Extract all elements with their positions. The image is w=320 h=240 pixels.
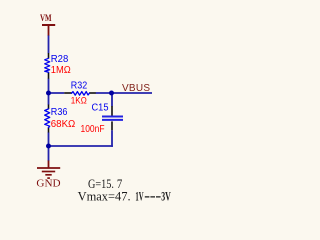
- svg-text:1V: 1V: [135, 189, 144, 204]
- svg-text:1KΩ: 1KΩ: [71, 95, 87, 106]
- svg-text:VBUS: VBUS: [122, 83, 150, 94]
- svg-text:68KΩ: 68KΩ: [51, 119, 76, 130]
- svg-text:1MΩ: 1MΩ: [51, 65, 71, 76]
- svg-text:R32: R32: [71, 81, 88, 92]
- svg-text:Vmax=47.: Vmax=47.: [78, 189, 131, 204]
- svg-text:GND: GND: [36, 179, 60, 190]
- svg-text:3V: 3V: [161, 189, 171, 204]
- svg-text:R28: R28: [51, 54, 69, 65]
- svg-text:100nF: 100nF: [81, 124, 105, 135]
- svg-text:R36: R36: [51, 107, 68, 118]
- svg-text:C15: C15: [92, 102, 109, 113]
- svg-text:VM: VM: [40, 14, 52, 24]
